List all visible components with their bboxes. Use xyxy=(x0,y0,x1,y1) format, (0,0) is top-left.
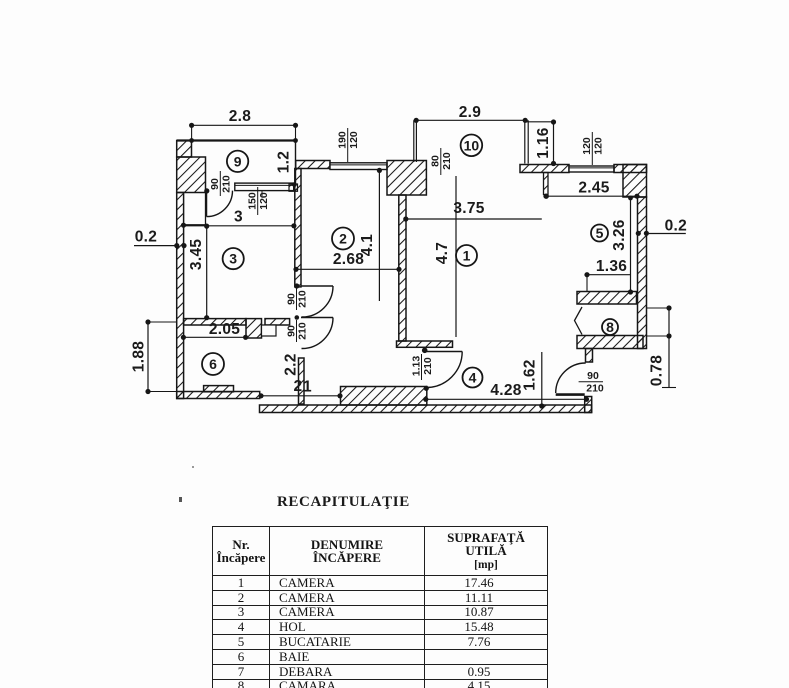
room circle 5 xyxy=(591,225,608,242)
wall stub below doors xyxy=(299,358,305,404)
svg-text:1.36: 1.36 xyxy=(596,258,627,275)
wall bottom right end block xyxy=(585,397,592,413)
wall bottom big block xyxy=(341,387,427,406)
svg-text:1.62: 1.62 xyxy=(522,359,539,390)
wall top right segment xyxy=(614,165,647,173)
svg-text:90: 90 xyxy=(209,178,221,190)
svg-text:120: 120 xyxy=(581,137,593,155)
wall bump room6 xyxy=(204,386,234,392)
svg-text:2.05: 2.05 xyxy=(209,321,240,338)
svg-text:90: 90 xyxy=(285,325,297,337)
svg-text:2.2: 2.2 xyxy=(283,353,300,375)
dim 3 xyxy=(184,225,294,227)
wall left lower xyxy=(177,193,184,399)
svg-text:10: 10 xyxy=(464,137,480,153)
room circle 2 xyxy=(332,228,354,250)
svg-text:6: 6 xyxy=(209,356,217,372)
balcony room10 left edge xyxy=(413,120,415,162)
svg-text:2.9: 2.9 xyxy=(459,104,482,121)
wall right outer xyxy=(638,197,647,349)
wall room3/6 divider xyxy=(184,319,246,325)
svg-text:3.45: 3.45 xyxy=(188,239,205,270)
svg-text:90: 90 xyxy=(587,370,599,382)
wall top right of balcony xyxy=(520,165,569,173)
recapitulation table xyxy=(212,526,549,688)
svg-text:1: 1 xyxy=(303,379,312,396)
svg-text:210: 210 xyxy=(422,357,434,375)
svg-text:0.2: 0.2 xyxy=(135,229,157,246)
top wall room 9 xyxy=(177,139,296,141)
svg-text:4: 4 xyxy=(469,370,477,386)
dim 0.78 rotated xyxy=(647,307,670,309)
dim 1.16 xyxy=(525,121,553,123)
wall room6 bottom xyxy=(177,392,260,399)
svg-text:5: 5 xyxy=(596,225,604,241)
dim 4.1 rotated xyxy=(378,170,380,301)
svg-text:8: 8 xyxy=(606,319,614,335)
svg-text:0.78: 0.78 xyxy=(649,355,666,386)
door room9-3 leaf xyxy=(206,192,208,217)
dim 2.8 xyxy=(192,124,296,126)
dim 2.45 xyxy=(546,195,637,197)
svg-text:3: 3 xyxy=(229,251,237,267)
svg-text:120: 120 xyxy=(592,137,604,155)
dim 4.28 xyxy=(426,398,587,400)
dim 4.7 rotated xyxy=(455,176,457,337)
door A room2 arc xyxy=(302,286,334,317)
svg-text:210: 210 xyxy=(297,290,309,308)
wall divider right part xyxy=(265,319,290,325)
dim 2.68 xyxy=(296,268,399,270)
wall room8 bottom xyxy=(577,336,643,349)
svg-text:2.45: 2.45 xyxy=(578,180,609,197)
dim 1.88 rotated xyxy=(147,322,149,392)
door room9-3 arc xyxy=(207,191,233,217)
svg-text:9: 9 xyxy=(234,153,242,169)
svg-text:120: 120 xyxy=(348,131,360,149)
wall room2 left xyxy=(295,169,301,287)
entrance door arc xyxy=(556,363,586,393)
svg-text:210: 210 xyxy=(220,175,232,193)
wall corner block right xyxy=(623,165,647,198)
wall stub room5 left xyxy=(544,173,549,195)
wall bottom strip xyxy=(260,405,592,413)
dim 0.2 right xyxy=(649,233,686,235)
svg-text:1.88: 1.88 xyxy=(131,341,148,372)
room circle 4 xyxy=(463,368,483,388)
dim 2.05 xyxy=(183,336,245,338)
dim 2.9 line xyxy=(416,119,525,121)
wall room8 top xyxy=(577,292,637,305)
niche room3 corner xyxy=(184,193,206,225)
door B arc xyxy=(302,318,334,349)
svg-text:80: 80 xyxy=(430,155,442,167)
door A room2 leaf xyxy=(301,285,333,287)
wall left top block xyxy=(177,141,192,158)
room circle 9 xyxy=(227,151,248,172)
door room4 leaf xyxy=(426,351,463,353)
window 190/120 room2 top xyxy=(330,163,387,170)
table title xyxy=(277,494,537,511)
svg-text:210: 210 xyxy=(297,322,309,340)
dim 1.36 xyxy=(587,274,631,276)
svg-text:210: 210 xyxy=(586,383,604,395)
dim 3.45 rotated xyxy=(206,226,208,318)
entrance door leaf xyxy=(556,393,585,396)
stub dot room5 xyxy=(543,194,548,199)
svg-text:3: 3 xyxy=(234,209,243,226)
svg-text:1.2: 1.2 xyxy=(276,151,293,173)
svg-text:3.26: 3.26 xyxy=(611,219,628,250)
room circle 1 xyxy=(456,245,477,266)
svg-text:1: 1 xyxy=(463,248,471,264)
scan speck xyxy=(179,497,182,502)
dim 2.1 xyxy=(261,395,340,397)
dim 0.2 left xyxy=(134,245,177,247)
wall left pier xyxy=(177,157,206,193)
wall room1 left xyxy=(399,195,406,341)
dim 1.62 rotated xyxy=(541,352,543,406)
balcony room10 right edge xyxy=(524,120,526,163)
room circle 8 xyxy=(602,319,618,335)
room circle 3 xyxy=(223,248,244,269)
room 9 right edge xyxy=(295,141,297,184)
wall pier room6 xyxy=(246,319,262,338)
door room4 arc xyxy=(427,352,463,388)
svg-text:2: 2 xyxy=(294,378,303,395)
room circle 10 xyxy=(461,135,483,157)
window 150/120 end cap xyxy=(289,184,298,191)
door B leaf xyxy=(301,317,333,319)
svg-text:210: 210 xyxy=(441,152,453,170)
wall jamb below room8 xyxy=(586,349,593,363)
svg-text:90: 90 xyxy=(285,293,297,305)
svg-text:4.28: 4.28 xyxy=(490,382,521,399)
wall corner block room2/room10 xyxy=(387,161,426,196)
dim 3.75 xyxy=(406,218,542,220)
niche below divider xyxy=(262,325,277,336)
svg-text:0.2: 0.2 xyxy=(665,218,687,235)
svg-text:4.1: 4.1 xyxy=(359,234,376,257)
svg-text:2: 2 xyxy=(339,231,347,247)
window 150/120 room9-3 xyxy=(235,183,294,191)
wall room1 bottom stub xyxy=(397,341,453,347)
door mark room5-8 xyxy=(575,307,583,335)
svg-text:3.75: 3.75 xyxy=(453,200,484,217)
room circle 6 xyxy=(202,353,224,375)
svg-text:120: 120 xyxy=(258,192,270,210)
svg-text:1.13: 1.13 xyxy=(410,356,422,377)
wall room2 top left xyxy=(296,161,330,169)
svg-text:2.8: 2.8 xyxy=(229,108,252,125)
dim 3.26 rotated xyxy=(630,197,632,292)
svg-text:1.16: 1.16 xyxy=(535,127,552,158)
svg-text:4.7: 4.7 xyxy=(434,242,451,264)
window 120/120 room5 top xyxy=(569,166,614,172)
